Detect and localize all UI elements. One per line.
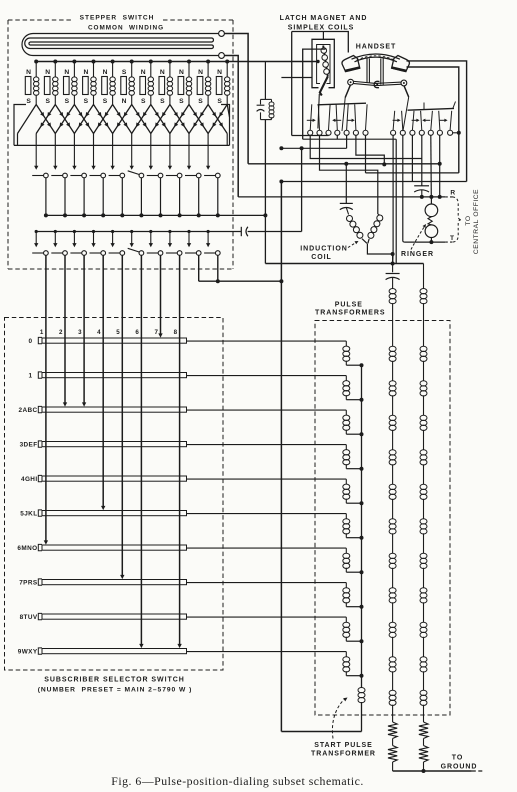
junction bus dot 4 bbox=[92, 60, 96, 64]
pulse transformer primary T5 coil bbox=[343, 514, 364, 540]
wire latch upper feed bbox=[303, 49, 326, 139]
row1 arrow 9 bbox=[187, 145, 191, 169]
hook contact 14 bbox=[448, 130, 453, 135]
junction right vertical at contact row bbox=[453, 131, 461, 135]
svg-text:S: S bbox=[84, 98, 89, 105]
pulse transformer primary T1 coil bbox=[343, 376, 364, 402]
hook arrow 1 bbox=[307, 119, 316, 122]
row1 contact 4 bbox=[90, 173, 106, 178]
svg-text:S: S bbox=[122, 69, 127, 76]
row1 arrow 5 bbox=[111, 145, 115, 169]
svg-text:2ABC: 2ABC bbox=[19, 407, 38, 414]
svg-text:7PRS: 7PRS bbox=[19, 580, 38, 587]
selector line 7 bbox=[158, 255, 162, 337]
label bar 5JKL bbox=[20, 511, 37, 518]
row2 arrow 5 bbox=[111, 230, 115, 247]
stepper magnet unit 5 with coil bbox=[102, 62, 116, 106]
junction bus dot 5 bbox=[111, 60, 115, 64]
bar 8TUV output wire bbox=[187, 616, 347, 618]
svg-text:N: N bbox=[64, 69, 69, 76]
lattice left boundary bbox=[14, 105, 36, 146]
stepper magnet unit 3 with coil bbox=[64, 62, 78, 106]
pulse transformer primary T7 coil bbox=[343, 583, 364, 609]
label TRANSFORMERS bbox=[315, 310, 386, 317]
hook contact 5 bbox=[344, 130, 349, 135]
row1 contact 9 lead bbox=[197, 178, 201, 218]
bar 6MNO output wire bbox=[187, 547, 347, 549]
pulse transformer primary T9 coil bbox=[343, 652, 364, 678]
svg-text:TO: TO bbox=[465, 215, 472, 225]
svg-text:8TUV: 8TUV bbox=[20, 614, 38, 621]
start pulse transformer coil bbox=[358, 687, 365, 731]
svg-text:SIMPLEX COILS: SIMPLEX COILS bbox=[288, 25, 354, 32]
label bar 4GHI bbox=[21, 476, 38, 483]
row2 contact 7 bbox=[147, 251, 163, 256]
selector bar 0 bbox=[38, 337, 186, 343]
ringer bottom lead bbox=[429, 238, 433, 245]
wire V392 contact drop bbox=[392, 135, 395, 263]
pulse transformer primary T3 coil bbox=[343, 445, 364, 471]
row1 contact 3 lead bbox=[82, 178, 86, 218]
row1 contact 8 bbox=[166, 173, 182, 178]
pulse transformer secondary chain (left) bbox=[389, 289, 396, 722]
selector line 8 bbox=[177, 255, 181, 648]
pulse transformers enclosure (dashed) bbox=[315, 321, 450, 716]
capacitor C4 (ringer) bbox=[414, 135, 429, 199]
handset cradle posts bbox=[367, 59, 383, 85]
wire LC unit to chain feed bbox=[264, 120, 266, 264]
central office bracket (dashed) bbox=[453, 197, 462, 242]
stepper magnet unit 1 with coil bbox=[25, 62, 39, 106]
wire latch lower feed bbox=[281, 77, 312, 79]
selector bar 6MNO bbox=[38, 544, 186, 550]
hook blade L4 bbox=[336, 104, 337, 130]
hook blade R2 bbox=[402, 111, 403, 130]
label line number 5 bbox=[116, 329, 120, 336]
row1 arrow 7 bbox=[149, 145, 153, 169]
svg-text:S: S bbox=[198, 98, 203, 105]
selector bar 1 bbox=[38, 372, 186, 378]
svg-text:0: 0 bbox=[29, 338, 33, 345]
hook blade L2 bbox=[318, 104, 319, 130]
wire V439 contact to R bus bbox=[438, 135, 442, 199]
handset bbox=[342, 54, 409, 72]
wire V301 row2 bus riser bbox=[301, 148, 303, 231]
junction bus dot 6 bbox=[130, 60, 134, 64]
bar 9WXY output wire bbox=[187, 651, 347, 653]
svg-text:LATCH MAGNET AND: LATCH MAGNET AND bbox=[280, 15, 368, 22]
wire terminal B to vertical x238 bbox=[224, 56, 238, 197]
hook arrow 2 bbox=[332, 119, 341, 122]
row1 collector bus bbox=[46, 213, 268, 217]
svg-text:INDUCTION: INDUCTION bbox=[300, 246, 347, 253]
label PULSE bbox=[335, 302, 363, 309]
subscriber selector switch enclosure (dashed) bbox=[5, 318, 224, 671]
svg-text:(NUMBER PRESET = MAIN 2–5790: (NUMBER PRESET = MAIN 2–5790 W ) bbox=[38, 687, 193, 694]
hook contact 12 bbox=[428, 130, 433, 135]
svg-text:N: N bbox=[83, 69, 88, 76]
lattice column 1 drop bbox=[35, 134, 37, 146]
lattice column 6 drop bbox=[131, 134, 133, 146]
hook pivot left bbox=[348, 79, 354, 85]
label bar 2ABC bbox=[19, 407, 38, 414]
hook arrow 4 bbox=[393, 119, 401, 122]
common winding coil bbox=[22, 34, 218, 56]
hook blade L7 bbox=[366, 104, 368, 130]
hook arrow 5 bbox=[412, 119, 420, 122]
bar 4GHI output wire bbox=[187, 478, 347, 480]
row1 contact 6 bbox=[128, 171, 144, 178]
row2 contact 10 bbox=[204, 251, 220, 256]
svg-text:6: 6 bbox=[135, 329, 139, 336]
label bar 1 bbox=[29, 373, 33, 380]
selector line 1 bbox=[44, 255, 48, 544]
selector bar 4GHI bbox=[38, 475, 186, 481]
selector line 5 bbox=[120, 255, 124, 579]
label line number 4 bbox=[97, 329, 101, 336]
wire handset lead bbox=[292, 32, 349, 53]
stepper switch enclosure (dashed) bbox=[8, 20, 233, 269]
row1 contact 7 lead bbox=[159, 178, 163, 218]
label bar 8TUV bbox=[20, 614, 38, 621]
latch magnet armature coil bbox=[321, 46, 329, 77]
long return wire x281 bbox=[280, 182, 282, 732]
bar 3DEF output wire bbox=[187, 444, 347, 446]
hook blade R7 bbox=[450, 111, 452, 130]
svg-text:N: N bbox=[122, 98, 127, 105]
svg-text:3DEF: 3DEF bbox=[20, 442, 38, 449]
hook pivot middle bbox=[374, 81, 379, 87]
capacitor C2 with inductor L2 (parallel unit) bbox=[257, 99, 274, 119]
row2 contact 2 bbox=[51, 251, 67, 256]
svg-text:PULSE: PULSE bbox=[335, 302, 363, 309]
selector line 6 bbox=[139, 255, 143, 648]
junction bus dot 10 bbox=[206, 60, 210, 64]
row2 contact 1 bbox=[32, 251, 48, 256]
label HANDSET bbox=[356, 44, 397, 51]
row1 contact 10 bbox=[204, 173, 220, 178]
hook blade R1 bbox=[393, 111, 395, 130]
wire T bus bbox=[404, 241, 452, 243]
svg-text:2: 2 bbox=[59, 329, 63, 336]
svg-text:N: N bbox=[26, 69, 31, 76]
label bar 6MNO bbox=[17, 545, 37, 552]
stepper magnet unit 11 with coil bbox=[216, 62, 230, 106]
row1 arrow 6 bbox=[130, 145, 134, 169]
bar 7PRS output wire bbox=[187, 582, 347, 584]
stepper coil bus bbox=[36, 60, 319, 63]
row1 contact 5 bbox=[109, 173, 125, 178]
wire H173 bbox=[366, 135, 459, 173]
label line number 3 bbox=[78, 329, 82, 336]
row1 contact 10 lead bbox=[216, 178, 220, 218]
selector bar 9WXY bbox=[38, 648, 186, 654]
svg-text:SUBSCRIBER SELECTOR SWITCH: SUBSCRIBER SELECTOR SWITCH bbox=[44, 677, 184, 684]
lattice column 10 drop bbox=[207, 134, 209, 146]
stepper magnet unit 8 with coil bbox=[159, 62, 173, 106]
svg-text:S: S bbox=[141, 98, 146, 105]
svg-text:N: N bbox=[179, 69, 184, 76]
hook arrow 6 bbox=[422, 119, 430, 122]
capacitor C1 (row2 bus) bbox=[241, 227, 248, 236]
row1 contact 8 lead bbox=[178, 178, 182, 218]
hook arm left bbox=[342, 85, 351, 132]
junction bus dot 1 bbox=[34, 60, 38, 64]
lattice column 7 drop bbox=[150, 134, 152, 146]
bar 1 output wire bbox=[187, 375, 347, 377]
row1 arrow 4 bbox=[91, 145, 95, 169]
svg-text:Fig. 6—Pulse-position-dialing: Fig. 6—Pulse-position-dialing subset sch… bbox=[111, 774, 364, 788]
hook contact 6 bbox=[353, 130, 358, 135]
svg-text:GROUND: GROUND bbox=[441, 764, 478, 771]
wire bus to LC unit bbox=[264, 62, 266, 100]
start pulse transformer return wire bbox=[281, 731, 361, 733]
label INDUCTION bbox=[300, 246, 347, 253]
wire R bus bbox=[238, 196, 452, 198]
hook contact 2 bbox=[317, 130, 322, 135]
row2 arrow 3 bbox=[72, 230, 76, 247]
common winding terminal A bbox=[219, 31, 225, 37]
svg-text:STEPPER SWITCH: STEPPER SWITCH bbox=[80, 15, 155, 22]
svg-text:T: T bbox=[450, 235, 454, 242]
lattice column 9 drop bbox=[188, 134, 190, 146]
hook insulator bar right bbox=[408, 108, 455, 110]
hook contact 10 bbox=[410, 130, 415, 135]
label T bbox=[450, 235, 454, 242]
row2 arrow 6 bbox=[130, 230, 134, 247]
svg-text:8: 8 bbox=[174, 329, 178, 336]
svg-text:S: S bbox=[179, 98, 184, 105]
wire handset to right vertical 1 bbox=[407, 61, 467, 182]
hook blade L1 bbox=[310, 104, 312, 130]
wire H164 long bbox=[248, 162, 440, 166]
label TO (ground) bbox=[452, 755, 464, 762]
label RINGER bbox=[401, 251, 434, 258]
label bar 0 bbox=[29, 338, 33, 345]
label COMMON WINDING bbox=[88, 25, 164, 32]
wire terminal A to vertical x248 bbox=[224, 34, 248, 164]
selector line 4 bbox=[101, 255, 105, 510]
hook blade L3 bbox=[329, 104, 331, 130]
selector line 3 bbox=[82, 255, 86, 406]
row2 arrow 9 bbox=[187, 230, 191, 247]
row1 contact 1 bbox=[32, 173, 48, 178]
latch magnet inner frame bbox=[317, 45, 330, 84]
row1 contact 2 lead bbox=[63, 178, 67, 218]
label STEPPER SWITCH bbox=[80, 15, 155, 22]
svg-text:1: 1 bbox=[40, 329, 44, 336]
label bar 9WXY bbox=[18, 649, 38, 656]
junction bus dot 8 bbox=[168, 60, 172, 64]
hook blade R3 bbox=[412, 111, 414, 130]
lattice right boundary bbox=[221, 105, 230, 146]
junction bus dot 11 bbox=[225, 60, 229, 64]
row2 contact 3 bbox=[70, 251, 86, 256]
row1 contact 2 bbox=[51, 173, 67, 178]
row1 contact 5 lead bbox=[120, 178, 124, 218]
wire H181 long bbox=[279, 180, 466, 184]
svg-text:N: N bbox=[141, 69, 146, 76]
label line number 8 bbox=[174, 329, 178, 336]
row2 contact 9 bbox=[185, 251, 201, 256]
svg-text:S: S bbox=[45, 98, 50, 105]
svg-text:S: S bbox=[65, 98, 70, 105]
hook blade R4 bbox=[421, 111, 422, 130]
pulse transformer primary T2 coil bbox=[343, 410, 364, 436]
label GROUND bbox=[441, 764, 478, 771]
junction bus dot 7 bbox=[149, 60, 153, 64]
label NUMBER PRESET bbox=[38, 687, 193, 694]
wire H139 contact to chain column bbox=[303, 135, 397, 263]
junction bus dot 3 bbox=[72, 60, 76, 64]
row1 arrow 1 bbox=[34, 145, 38, 169]
hook contact 3 bbox=[326, 130, 331, 135]
selector bar 2ABC bbox=[38, 406, 186, 412]
svg-text:4: 4 bbox=[97, 329, 101, 336]
ground wire bbox=[393, 769, 484, 773]
row2 contact 8 bbox=[166, 251, 182, 256]
chain feed wire bbox=[265, 262, 423, 266]
label COIL (induction) bbox=[311, 254, 332, 261]
label CENTRAL OFFICE bbox=[473, 189, 480, 254]
wire H158 bbox=[310, 135, 422, 158]
lattice column 3 drop bbox=[73, 134, 75, 146]
stepper magnet unit 6 with coil bbox=[121, 62, 135, 106]
svg-text:6MNO: 6MNO bbox=[17, 545, 37, 552]
svg-text:CENTRAL OFFICE: CENTRAL OFFICE bbox=[473, 189, 480, 254]
svg-text:3: 3 bbox=[78, 329, 82, 336]
selector line 2 bbox=[63, 255, 67, 406]
ringer gong upper bbox=[425, 204, 438, 217]
junction bus dot 9 bbox=[187, 60, 191, 64]
label TRANSFORMER bbox=[311, 751, 376, 758]
hook blade R5 bbox=[431, 111, 433, 130]
row2 arrow 7 bbox=[149, 230, 153, 247]
right chain feed corner bbox=[423, 264, 425, 289]
selector bar 3DEF bbox=[38, 441, 186, 447]
hook arrow 7 bbox=[440, 119, 448, 122]
resistor R2 bbox=[419, 722, 428, 771]
row2 contact 4 bbox=[90, 251, 106, 256]
lattice collector bus bbox=[14, 144, 230, 146]
hook insulator tick 2 bbox=[453, 102, 456, 109]
row2 arrow 1 bbox=[34, 230, 38, 247]
svg-text:5JKL: 5JKL bbox=[20, 511, 37, 518]
stepper magnet unit 9 with coil bbox=[178, 62, 192, 106]
svg-text:N: N bbox=[217, 69, 222, 76]
resistor R1 bbox=[388, 722, 397, 771]
lattice column 11 drop bbox=[226, 134, 228, 146]
induction coil windings bbox=[347, 214, 383, 243]
wire H155 bbox=[356, 135, 386, 166]
row2 arrow 2 bbox=[53, 230, 57, 247]
selector bar 8TUV bbox=[38, 613, 186, 619]
svg-text:9WXY: 9WXY bbox=[18, 649, 38, 656]
hook contact 13 bbox=[437, 130, 442, 135]
label bar 7PRS bbox=[19, 580, 38, 587]
row2 arrow 10 bbox=[206, 230, 210, 247]
row1 contact 7 bbox=[147, 173, 163, 178]
ringer pointer (dashed arrow) bbox=[411, 224, 426, 250]
stair bus wire bbox=[361, 365, 363, 687]
row2 contact 9 and 10 return wire bbox=[199, 255, 284, 283]
svg-text:7: 7 bbox=[154, 329, 158, 336]
lattice column 5 drop bbox=[112, 134, 114, 146]
hook pivot right bbox=[401, 80, 407, 86]
svg-text:N: N bbox=[198, 69, 203, 76]
svg-text:S: S bbox=[160, 98, 165, 105]
svg-text:COMMON WINDING: COMMON WINDING bbox=[88, 25, 164, 32]
hook contact 4 bbox=[335, 130, 340, 135]
ringer top lead bbox=[429, 135, 433, 204]
wire H170 bbox=[320, 135, 378, 214]
hook blade R6 bbox=[439, 111, 440, 130]
pulse transformer primary T8 coil bbox=[343, 617, 364, 643]
pulse transformer primary T4 coil bbox=[343, 479, 364, 505]
svg-text:TRANSFORMER: TRANSFORMER bbox=[311, 751, 376, 758]
junction bus dot 2 bbox=[53, 60, 57, 64]
row1 arrow 10 bbox=[206, 145, 210, 169]
lattice column 2 drop bbox=[54, 134, 56, 146]
hook contact 8 bbox=[391, 130, 396, 135]
selector bar 7PRS bbox=[38, 579, 186, 585]
label START PULSE bbox=[314, 742, 373, 749]
label R bbox=[450, 190, 455, 197]
hook insulator tick 1 bbox=[423, 103, 425, 110]
hook arm right bbox=[403, 86, 409, 132]
row1 contact 1 lead bbox=[44, 178, 48, 218]
label LATCH MAGNET AND bbox=[280, 15, 368, 22]
wire handset to right vertical 2 bbox=[407, 67, 459, 173]
svg-text:HANDSET: HANDSET bbox=[356, 44, 397, 51]
wire H135 contact to handset lead bbox=[292, 32, 329, 136]
hook arrow 3 bbox=[347, 119, 355, 122]
svg-text:R: R bbox=[450, 190, 455, 197]
row2 arrow 8 bbox=[168, 230, 172, 247]
row1 arrow 2 bbox=[53, 145, 57, 169]
hook contact 7 bbox=[363, 130, 368, 135]
selector bar 5JKL bbox=[38, 510, 186, 516]
svg-text:N: N bbox=[45, 69, 50, 76]
svg-text:S: S bbox=[26, 98, 31, 105]
ringer clapper bbox=[428, 217, 432, 225]
label line number 6 bbox=[135, 329, 139, 336]
row2 contact 5 bbox=[109, 251, 125, 256]
row2 contact 6 bbox=[128, 248, 144, 255]
bar 0 output wire bbox=[187, 340, 347, 342]
stepper magnet unit 2 with coil bbox=[44, 62, 58, 106]
hook insulator bar left bbox=[318, 103, 367, 105]
induction coil pointer (dashed arrow) bbox=[348, 241, 359, 248]
stepper magnet unit 4 with coil bbox=[83, 62, 97, 106]
induction coil output wire bbox=[367, 244, 394, 264]
label TO (central office) bbox=[465, 215, 472, 225]
bar 2ABC output wire bbox=[187, 409, 347, 411]
lattice column 4 drop bbox=[93, 134, 95, 146]
stepper ratchet lattice bbox=[36, 105, 227, 134]
ringer gong lower bbox=[425, 225, 438, 238]
capacitor C3 (induction coil) bbox=[340, 164, 353, 215]
hook blade L6 bbox=[355, 104, 356, 130]
svg-text:S: S bbox=[103, 98, 108, 105]
stepper magnet unit 7 with coil bbox=[140, 62, 154, 106]
svg-text:5: 5 bbox=[116, 329, 120, 336]
wire H148 bbox=[279, 135, 346, 150]
svg-text:1: 1 bbox=[29, 373, 33, 380]
hook contact 1 bbox=[308, 130, 313, 135]
caption bbox=[111, 774, 364, 788]
label SIMPLEX COILS bbox=[288, 25, 354, 32]
